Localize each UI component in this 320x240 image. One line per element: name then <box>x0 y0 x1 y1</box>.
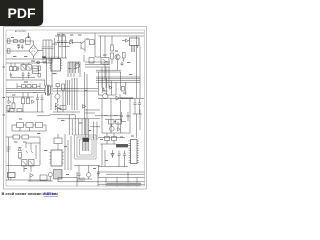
capacitor C25 <box>127 112 130 121</box>
choke L1 <box>26 38 31 44</box>
diode VD6 <box>122 39 130 42</box>
resistor R8 <box>111 53 114 59</box>
title text row <box>107 183 141 186</box>
capacitor C14 <box>138 99 141 110</box>
wire <box>6 63 45 80</box>
inductor L2 <box>116 144 128 147</box>
wire <box>105 36 140 98</box>
resistor R9 <box>122 53 125 59</box>
optocoupler U5 <box>101 58 109 65</box>
resistor R33 <box>40 175 47 181</box>
wire <box>6 41 30 51</box>
schematic frame <box>6 30 145 186</box>
diode VD13 <box>110 86 113 89</box>
wire <box>6 93 44 113</box>
bridge VD1 <box>29 45 38 57</box>
resistor R30 <box>38 66 40 71</box>
wire <box>6 40 52 59</box>
transistor VT10 <box>48 173 52 177</box>
IC socket U11 <box>54 170 63 180</box>
capacitor C21 <box>18 45 20 49</box>
stamp component <box>78 178 84 182</box>
transformer T1 <box>45 85 51 96</box>
capacitor C12 <box>41 94 44 105</box>
capacitor C17 <box>118 151 121 162</box>
transistor VT2 <box>115 54 120 59</box>
resistor R5 <box>89 40 94 45</box>
wire <box>96 70 140 82</box>
resistor R16 <box>22 98 25 104</box>
resistor R29 <box>36 123 43 128</box>
optocoupler U3 <box>21 65 26 71</box>
capacitor C23 <box>102 88 104 92</box>
wire <box>43 58 52 63</box>
diode VD14 <box>55 106 58 110</box>
capacitor C13 <box>133 99 136 110</box>
diode VD12 <box>18 148 22 151</box>
wire <box>6 137 40 180</box>
svg-text:AC IN 220V: AC IN 220V <box>15 30 27 33</box>
diode VD15 <box>83 105 86 109</box>
capacitor C15 <box>78 171 81 179</box>
capacitor C5 <box>57 36 60 47</box>
wire loop inner <box>80 139 93 155</box>
resistor R3 <box>10 67 13 71</box>
PDF badge <box>0 0 43 26</box>
capacitor C9 <box>22 72 25 78</box>
resistor R28 <box>26 123 33 128</box>
fuse F1 <box>14 40 18 43</box>
resistor R31 <box>38 73 40 77</box>
wire <box>58 134 71 170</box>
resistor R32 <box>60 106 66 110</box>
wire comb drops <box>68 66 80 77</box>
optocoupler U10 <box>29 160 35 167</box>
page border <box>4 27 147 190</box>
relay K1 <box>8 173 16 178</box>
wire <box>98 133 131 167</box>
resistor R18 <box>56 84 59 87</box>
diode VD10 <box>116 96 119 100</box>
capacitor C7 <box>64 36 67 47</box>
transistor VT8 <box>110 127 115 132</box>
capacitor C22 <box>21 45 23 49</box>
capacitor C8 <box>10 73 13 78</box>
wire <box>17 83 40 89</box>
capacitor C26 <box>17 67 19 71</box>
wire bus <box>6 89 98 93</box>
node AC IN 220V <box>0 0 1 1</box>
wire <box>102 144 113 167</box>
capacitor C3 <box>48 40 51 58</box>
resistor R15 <box>12 103 15 109</box>
diode VD7 <box>8 100 11 104</box>
transistor VT1 <box>81 39 85 53</box>
wire loop mid <box>77 137 94 157</box>
wire <box>53 78 80 112</box>
IC U1 <box>51 59 61 72</box>
resistor R10 <box>89 58 94 64</box>
wire <box>62 33 110 88</box>
label cluster <box>7 147 11 151</box>
transistor VT3 <box>75 63 80 68</box>
capacitor C2 <box>45 40 48 58</box>
resistor R19 <box>62 84 65 90</box>
resistor R35 <box>17 109 22 112</box>
diode VD8 <box>32 100 35 103</box>
wire <box>55 38 135 58</box>
wire <box>28 177 53 181</box>
diode VD16 <box>30 174 33 178</box>
junction dots <box>42 56 46 58</box>
resistor R26 <box>122 87 125 92</box>
wire fan <box>50 115 100 140</box>
wire <box>6 145 50 180</box>
IC U2 <box>130 38 140 46</box>
svg-text:PDF: PDF <box>8 5 36 21</box>
wire loop outer <box>75 135 97 159</box>
transistor VT9 <box>37 61 40 64</box>
svg-text:tl494.ru: tl494.ru <box>44 191 58 196</box>
resistor R17 <box>27 98 30 104</box>
connector comb J1 <box>68 62 80 66</box>
capacitor C20 <box>121 62 124 67</box>
resistor R34 <box>9 109 14 112</box>
resistor R7 <box>111 45 114 51</box>
optocoupler U4 <box>27 65 32 71</box>
transistor VT4 <box>55 94 60 99</box>
transistor VT7 <box>87 173 91 177</box>
transistor VT5 <box>103 93 108 98</box>
IC U8 <box>51 150 62 166</box>
fold marks <box>3 67 6 115</box>
resistor R24 <box>105 137 110 141</box>
resistor R2 <box>7 49 10 53</box>
resistor R4 <box>13 67 16 71</box>
resistor R27 <box>17 123 24 128</box>
wire <box>12 125 46 131</box>
wire <box>98 94 130 133</box>
pin row header <box>52 57 58 59</box>
capacitor C11 <box>36 94 39 105</box>
capacitor C18 <box>123 151 126 162</box>
connector X1 <box>131 140 138 164</box>
resistor R21 <box>22 135 29 139</box>
wire secondary rail <box>37 116 125 138</box>
capacitor C4 <box>51 40 54 58</box>
capacitor C6 <box>61 36 64 47</box>
wire <box>133 110 142 139</box>
diode VD17 <box>111 154 114 157</box>
capacitor C1 <box>42 40 45 58</box>
diode VD9 <box>56 103 59 107</box>
regulator U6 <box>109 120 115 125</box>
resistor R20 <box>13 135 20 139</box>
resistor R22 <box>18 153 21 159</box>
wire <box>52 33 144 57</box>
resistor R12 <box>27 85 31 88</box>
wire <box>26 143 40 153</box>
capacitor C16 <box>97 170 100 177</box>
resistor R6 <box>33 66 39 74</box>
thermistor RT1 <box>20 40 24 43</box>
wire <box>102 120 130 134</box>
AC arrow <box>28 33 30 38</box>
wire <box>85 72 101 135</box>
wire <box>99 72 126 95</box>
regulator U7 <box>116 120 122 125</box>
wire <box>74 166 100 180</box>
wire heavy bus <box>98 97 120 99</box>
wire primary <box>36 58 52 92</box>
resistor R23 <box>54 138 62 144</box>
capacitor C10 <box>27 72 30 78</box>
tiny label specks <box>11 34 134 175</box>
resistor R14 <box>7 106 10 112</box>
resistor R25 <box>112 137 117 141</box>
title block <box>58 172 145 187</box>
resistor R1 <box>7 39 10 43</box>
diode VD5 <box>70 41 73 45</box>
wire <box>45 80 53 110</box>
resistor R13 <box>33 85 37 88</box>
diode VD11 <box>118 128 121 132</box>
resistor R11 <box>22 85 26 88</box>
capacitor C24 <box>120 112 123 121</box>
optocoupler U9 <box>22 160 28 167</box>
connector J2 <box>83 142 89 151</box>
